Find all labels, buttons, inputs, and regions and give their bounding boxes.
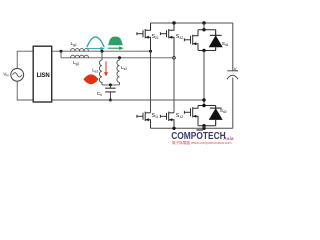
wire right rail upper [232,23,234,71]
transistor S22 [160,23,174,58]
node split dot [60,50,63,53]
wire join bar [102,84,120,86]
transistor Sd2 mosfet [184,106,198,126]
LISN box [33,46,52,102]
inductor Lg2 [71,55,89,58]
red noise lens [83,74,98,84]
teal current arrow [87,47,105,51]
node Ls2 tap [118,56,121,59]
wire Vin top to LISN [17,51,33,68]
capacitor Vo curved plate [227,75,238,79]
node Cb neutral dot [109,99,112,102]
wire bottom rail [151,127,233,129]
wire phase1 [52,50,151,52]
wire Ls2 stub [119,58,121,60]
node Sd1 mid dot [202,49,205,52]
wire top rail [151,22,233,24]
wire Sd2 bottom bar [198,125,216,127]
node join dot [109,83,112,86]
capacitor Vo top plate [227,70,237,72]
red current arrow [104,61,108,76]
node rail leg2 dot [172,21,175,24]
diode Sd2 [210,106,222,126]
wire slow leg mid [203,51,205,106]
wire slow leg lower [203,126,205,129]
node Sd2 bottom dot [202,124,205,127]
wire leg2 [173,58,175,113]
wire split vertical [60,51,62,58]
wire Sd1 top bar [198,29,216,31]
wire Sd2 top bar [198,105,216,107]
inductor Ls1 [99,60,102,82]
node rail slow leg dot [202,21,205,24]
wire neutral [52,99,204,101]
transistor S12 [160,112,174,129]
transistor Sd1 mosfet [184,30,198,51]
wire leg1 [150,51,152,113]
wire right rail lower [232,78,234,129]
capacitor Cb [105,85,115,100]
svg-text:COMPOTECH: COMPOTECH [171,130,226,141]
node Ls1 tap [101,50,104,53]
node neutral slow dot [202,98,205,101]
green noise hump [108,37,123,46]
diode Sd1 [210,30,222,51]
wire Ls1 bottom [101,82,103,85]
wire phase2 [61,57,174,59]
transistor S11 [137,112,151,129]
wire slow leg upper [203,23,205,30]
inductor Ls2 [117,60,120,82]
svg-text:LISN: LISN [37,73,50,79]
wire Ls1 stub [101,51,103,60]
node Sd2 top dot [202,104,205,107]
node slow top bar dot [202,28,205,31]
wire Vin bottom to LISN [17,81,33,100]
node bottom rail leg2 dot [172,127,175,130]
svg-text:電子與電腦 www.compotechasia.com: 電子與電腦 www.compotechasia.com [172,140,232,145]
ac source Vin [11,68,24,81]
teal noise hump [87,37,104,47]
wire Sd1 bottom bar [198,50,216,52]
node phase2 to leg2 circle [173,56,176,59]
node bottom rail slow leg dot [202,127,205,130]
wire Ls2 bottom [119,82,121,85]
green current arrow [108,46,124,50]
logo macron over O [197,129,203,130]
transistor S21 [137,23,151,51]
node phase1 to leg1 dot [149,50,152,53]
inductor Lg1 [71,49,89,52]
